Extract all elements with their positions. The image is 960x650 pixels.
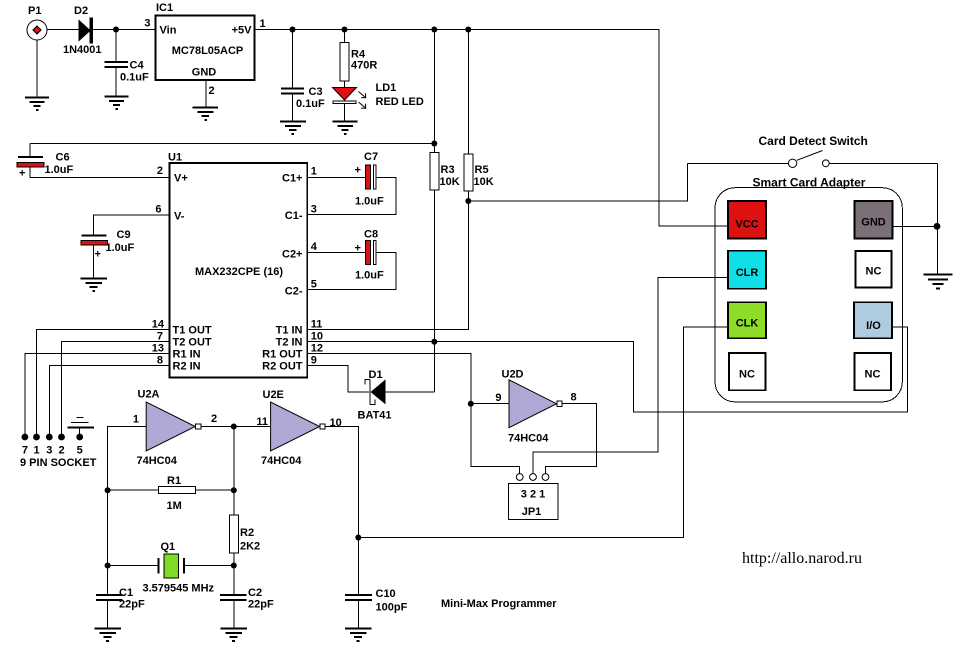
ground under C3	[280, 122, 306, 135]
svg-text:R1: R1	[167, 475, 181, 487]
wire P1 to D2	[47, 29, 79, 31]
svg-text:100pF: 100pF	[376, 602, 408, 614]
wire U2D output pin 8 to JP1 pin 1	[546, 404, 597, 474]
node R5 / card detect	[465, 198, 471, 204]
pad VCC	[728, 201, 766, 239]
svg-text:1: 1	[311, 166, 317, 178]
svg-text:3: 3	[144, 18, 150, 30]
svg-text:5: 5	[311, 279, 317, 291]
junction node C4	[113, 27, 119, 33]
node T2IN / R3 / D1	[431, 339, 437, 345]
svg-text:1.0uF: 1.0uF	[106, 242, 135, 254]
svg-text:MC78L05ACP: MC78L05ACP	[172, 45, 244, 57]
svg-text:T1 OUT: T1 OUT	[173, 325, 212, 337]
regulator IC1 MC78L05ACP	[144, 2, 265, 97]
op-amp U1 MAX232CPE box	[152, 152, 323, 378]
wire U2A input down to C1/R1/Q1	[108, 427, 147, 595]
svg-text:1.0uF: 1.0uF	[355, 270, 384, 282]
node C3 on rail	[290, 27, 296, 33]
svg-text:R3: R3	[441, 164, 455, 176]
svg-text:R1 IN: R1 IN	[173, 349, 201, 361]
wire R1 IN pin 13 to socket pin 7	[25, 354, 170, 435]
svg-text:3: 3	[311, 204, 317, 216]
ground right	[924, 275, 953, 289]
svg-text:R2 OUT: R2 OUT	[262, 361, 303, 373]
node Q1 left	[105, 563, 111, 569]
wire T1 OUT pin 14 to socket pin 1	[37, 330, 170, 435]
svg-text:C6: C6	[56, 152, 70, 164]
ground under LD1	[333, 122, 358, 135]
node R3 on rail	[431, 27, 437, 33]
svg-text:1: 1	[260, 18, 266, 30]
node R1 right	[231, 487, 237, 493]
svg-text:T2 IN: T2 IN	[276, 337, 303, 349]
svg-text:11: 11	[311, 319, 323, 331]
svg-text:GND: GND	[861, 217, 886, 229]
svg-text:MAX232CPE (16): MAX232CPE (16)	[195, 266, 283, 278]
svg-text:2: 2	[209, 85, 215, 97]
svg-text:9: 9	[311, 355, 317, 367]
resistor R3 10K	[430, 30, 460, 393]
resistor R4 470R	[340, 30, 377, 88]
pad CLK	[728, 302, 766, 338]
svg-text:C8: C8	[364, 229, 378, 241]
node GND	[934, 223, 941, 230]
svg-text:Card Detect Switch: Card Detect Switch	[759, 134, 868, 148]
svg-text:+: +	[355, 243, 361, 255]
svg-text:+5V: +5V	[232, 25, 253, 37]
node R5 on rail	[465, 27, 471, 33]
svg-text:5: 5	[77, 445, 83, 457]
svg-text:C1-: C1-	[285, 210, 303, 222]
smart card adapter outline	[715, 188, 902, 402]
svg-text:470R: 470R	[351, 60, 377, 72]
svg-text:7: 7	[22, 445, 28, 457]
wire CLR pad to JP1 pin 2	[533, 278, 728, 474]
svg-text:P1: P1	[28, 5, 41, 17]
node R4 on rail	[342, 27, 348, 33]
capacitor C9 1.0uF	[81, 229, 135, 278]
wire card detect switch to R5	[468, 163, 687, 201]
svg-text:1.0uF: 1.0uF	[355, 196, 384, 208]
ground under C10	[345, 629, 372, 642]
svg-text:V+: V+	[174, 173, 188, 185]
wire GND pad to switch net	[893, 225, 938, 227]
svg-text:I/O: I/O	[866, 320, 881, 332]
inverter U2A 74HC04	[133, 389, 217, 468]
svg-text:R5: R5	[475, 164, 489, 176]
wire R1 OUT pin 12 to U2D input	[307, 354, 509, 404]
svg-text:+: +	[19, 168, 25, 180]
svg-text:2: 2	[211, 413, 217, 425]
svg-text:1N4001: 1N4001	[63, 44, 102, 56]
svg-text:D1: D1	[369, 369, 383, 381]
wire C6 top to R3 rail	[30, 143, 434, 145]
svg-text:8: 8	[157, 355, 163, 367]
svg-text:Q1: Q1	[161, 541, 176, 553]
svg-text:2K2: 2K2	[240, 541, 260, 553]
svg-text:3 2 1: 3 2 1	[521, 489, 545, 501]
svg-text:U2E: U2E	[263, 389, 284, 401]
pad NC row4 left	[729, 353, 766, 390]
ground under IC1	[193, 108, 219, 121]
svg-text:NC: NC	[866, 266, 882, 278]
svg-text:C3: C3	[309, 86, 323, 98]
svg-text:3: 3	[46, 445, 52, 457]
svg-text:74HC04: 74HC04	[261, 455, 302, 467]
jumper JP1	[508, 474, 558, 520]
svg-text:10K: 10K	[440, 176, 460, 188]
svg-text:1: 1	[133, 414, 139, 426]
svg-text:C1: C1	[119, 587, 133, 599]
9 pin socket pins	[20, 434, 97, 469]
IC1 pin 2 wire	[205, 80, 207, 107]
svg-text:1M: 1M	[167, 500, 182, 512]
inverter U2E 74HC04	[256, 389, 341, 467]
svg-text:13: 13	[152, 343, 164, 355]
svg-text:VCC: VCC	[735, 219, 758, 231]
svg-text:0.1uF: 0.1uF	[120, 72, 149, 84]
pad GND	[855, 201, 893, 239]
svg-text:BAT41: BAT41	[358, 410, 392, 422]
svg-text:9: 9	[495, 392, 501, 404]
capacitor C6 1.0uF	[17, 144, 74, 180]
svg-text:C2-: C2-	[285, 286, 303, 298]
capacitor C3 0.1uF	[281, 30, 325, 122]
ground under C1	[95, 629, 122, 642]
ground under C4	[105, 97, 129, 110]
resistor R2 2K2	[229, 427, 260, 595]
diode D2 1N4001	[63, 5, 102, 56]
svg-text:11: 11	[256, 416, 268, 428]
svg-text:12: 12	[311, 343, 323, 355]
svg-text:74HC04: 74HC04	[137, 455, 178, 467]
capacitor C8 1.0uF	[307, 229, 396, 290]
svg-text:CLR: CLR	[736, 267, 759, 279]
svg-text:U2D: U2D	[502, 369, 524, 381]
wire R5 bottom to T1 IN pin 11	[307, 191, 468, 330]
wire T2 OUT pin 7 to socket pin 2	[62, 342, 170, 435]
wire R2 OUT pin 9 to D1	[307, 366, 369, 393]
wire T2 IN pin 10 to I/O pad	[307, 327, 907, 412]
svg-text:C2+: C2+	[282, 249, 303, 261]
svg-text:D2: D2	[74, 5, 88, 17]
svg-text:Vin: Vin	[160, 25, 177, 37]
wire V+ pin 2	[30, 177, 170, 179]
node R1 left	[105, 487, 111, 493]
svg-text:2: 2	[58, 445, 64, 457]
svg-text:JP1: JP1	[522, 506, 542, 518]
resistor R5 10K	[464, 30, 494, 192]
capacitor C2 22pF	[220, 587, 274, 628]
node R3/C6	[431, 141, 437, 147]
svg-text:8: 8	[571, 392, 577, 404]
node Q1 right	[231, 563, 237, 569]
svg-text:T2 OUT: T2 OUT	[173, 337, 212, 349]
wire R1OUT node down to JP1 pin 3	[471, 404, 520, 474]
node C10	[355, 535, 361, 541]
svg-text:C1+: C1+	[282, 173, 303, 185]
wire +5V rail from IC1 pin1 to VCC pad	[255, 30, 729, 227]
wire V- pin 6 to C9	[94, 215, 170, 235]
svg-text:2: 2	[157, 165, 163, 177]
svg-text:74HC04: 74HC04	[508, 433, 549, 445]
wire U2A output to U2E input	[201, 426, 271, 428]
svg-text:22pF: 22pF	[248, 599, 274, 611]
card detect switch	[687, 151, 937, 168]
svg-text:LD1: LD1	[376, 82, 397, 94]
ground under C9	[81, 279, 108, 292]
svg-text:R2 IN: R2 IN	[173, 361, 201, 373]
svg-text:R1 OUT: R1 OUT	[262, 349, 303, 361]
diode D1 BAT41	[358, 369, 435, 422]
node U2A out / R2	[231, 424, 237, 430]
resistor R1 1M	[108, 475, 234, 512]
svg-text:IC1: IC1	[156, 2, 173, 14]
svg-text:Mini-Max Programmer: Mini-Max Programmer	[441, 598, 557, 610]
svg-text:+: +	[95, 249, 101, 261]
svg-text:7: 7	[157, 331, 163, 343]
svg-text:C10: C10	[376, 588, 396, 600]
ground above socket pin 5	[68, 418, 95, 435]
svg-text:U1: U1	[168, 152, 182, 164]
wire switch to GND pad	[937, 163, 939, 274]
svg-text:9 PIN SOCKET: 9 PIN SOCKET	[20, 457, 97, 469]
svg-text:4: 4	[311, 241, 318, 253]
svg-text:C9: C9	[117, 229, 131, 241]
svg-text:+: +	[355, 165, 361, 177]
svg-text:RED LED: RED LED	[376, 96, 424, 108]
svg-text:V-: V-	[174, 211, 185, 223]
svg-text:T1 IN: T1 IN	[276, 325, 303, 337]
connector P1	[27, 5, 47, 40]
svg-text:R2: R2	[240, 527, 254, 539]
svg-text:C2: C2	[248, 587, 262, 599]
capacitor C1 22pF	[96, 587, 145, 628]
svg-text:GND: GND	[192, 67, 217, 79]
ground under P1	[25, 40, 49, 110]
svg-text:3.579545 MHz: 3.579545 MHz	[143, 583, 215, 595]
ground under C2	[221, 629, 248, 642]
pad NC row4 right	[855, 353, 892, 390]
svg-text:U2A: U2A	[138, 389, 160, 401]
svg-text:10K: 10K	[474, 176, 494, 188]
pad NC row2	[856, 251, 892, 288]
crystal Q1 3.579545 MHz	[108, 541, 234, 595]
svg-text:14: 14	[152, 319, 165, 331]
svg-text:C7: C7	[364, 151, 378, 163]
wire R2 IN pin 8 to socket pin 3	[49, 366, 169, 435]
svg-text:CLK: CLK	[736, 318, 759, 330]
svg-text:1.0uF: 1.0uF	[45, 164, 74, 176]
svg-text:http://allo.narod.ru: http://allo.narod.ru	[742, 550, 862, 567]
capacitor C4 0.1uF	[105, 30, 150, 97]
inverter U2D 74HC04	[495, 369, 576, 445]
svg-text:C4: C4	[130, 60, 145, 72]
pad CLR	[728, 251, 766, 289]
wire D2 to IC1 pin 3	[93, 29, 156, 31]
svg-text:NC: NC	[865, 369, 881, 381]
capacitor C10 100pF	[345, 538, 408, 629]
svg-text:6: 6	[155, 204, 161, 216]
wire U2E output to CLK pad	[326, 327, 729, 537]
svg-text:1: 1	[33, 445, 39, 457]
svg-text:22pF: 22pF	[119, 599, 145, 611]
pad I/O	[854, 302, 892, 338]
svg-text:10: 10	[311, 331, 323, 343]
svg-text:NC: NC	[739, 369, 755, 381]
svg-text:0.1uF: 0.1uF	[296, 98, 325, 110]
capacitor C7 1.0uF	[307, 151, 396, 215]
LED LD1 RED LED	[333, 82, 424, 121]
node R1OUT / JP1	[468, 401, 474, 407]
svg-text:10: 10	[330, 417, 342, 429]
